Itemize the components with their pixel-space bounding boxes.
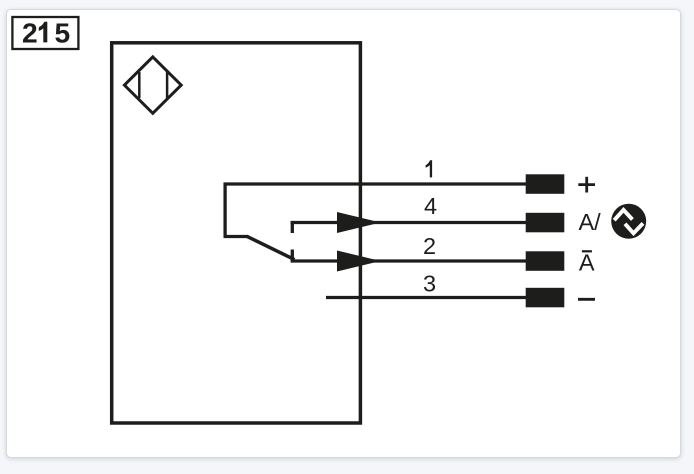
svg-text:5: 5 — [55, 16, 71, 48]
svg-text:A/: A/ — [579, 209, 602, 235]
contact tick pin 4 — [291, 221, 294, 233]
svg-text:2: 2 — [423, 233, 436, 259]
Baumer logo diamond — [124, 57, 181, 113]
arrow on wire 4 — [337, 212, 381, 233]
common loop wire from pin 1 to switch — [224, 183, 249, 237]
complementary output icon — [611, 204, 646, 239]
terminal pin 3 — [526, 288, 565, 308]
svg-text:3: 3 — [423, 271, 436, 297]
wire 3 — [326, 296, 527, 299]
reference number box 215 — [12, 16, 78, 49]
switch lever — [247, 236, 295, 259]
wire 2 — [291, 259, 527, 262]
arrow on wire 2 — [337, 251, 381, 272]
label A-bar — [579, 250, 595, 276]
wire 1 — [224, 182, 527, 185]
terminal pin 2 — [526, 251, 565, 270]
svg-text:A: A — [579, 250, 595, 276]
pin number 1 — [426, 160, 433, 177]
svg-text:2: 2 — [22, 16, 38, 48]
terminal pin 4 — [526, 213, 565, 233]
wire 4 — [291, 221, 527, 224]
minus label — [578, 298, 595, 301]
terminal pin 1 — [526, 174, 565, 194]
svg-text:4: 4 — [424, 193, 437, 219]
sensor body outline — [112, 43, 361, 423]
plus label — [578, 177, 595, 193]
contact tick pin 2 — [291, 250, 294, 262]
